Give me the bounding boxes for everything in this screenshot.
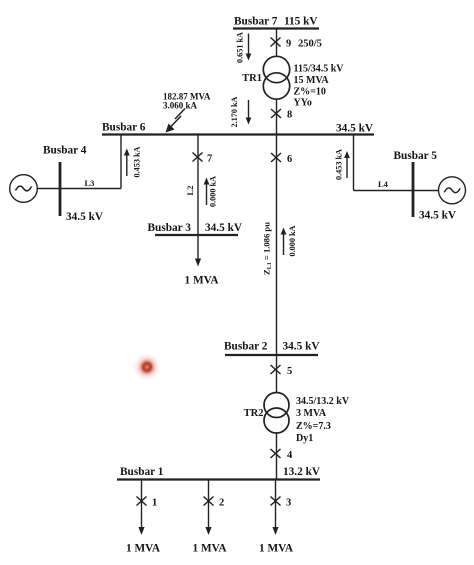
svg-text:13.2 kV: 13.2 kV [283,466,321,478]
feeder 3 wire [272,480,278,536]
busbar 7 label [234,16,318,28]
wire TR1 to busbar 6 [276,99,278,135]
svg-text:34.5 kV: 34.5 kV [66,211,104,223]
busbar 5 voltage label [419,210,457,222]
svg-text:1 MVA: 1 MVA [259,543,294,555]
load 3 label [259,543,294,555]
wire line L4 [354,190,439,192]
svg-text:1 MVA: 1 MVA [126,543,161,555]
svg-text:34.5 kV: 34.5 kV [336,123,374,135]
load 1 label [126,543,161,555]
svg-text:3 MVA: 3 MVA [296,408,327,419]
busbar 5 label [394,150,438,162]
svg-text:YYo: YYo [294,98,312,109]
transformer TR2 [264,393,289,434]
busbar 1 [117,478,320,480]
svg-text:TR2: TR2 [244,408,264,419]
label 2.170 kA [230,96,239,127]
wire busbar7 to TR1 [276,29,278,57]
svg-text:Dy1: Dy1 [296,433,313,444]
busbar 3 voltage label [205,222,243,234]
fault label 182.87 MVA 3.060 kA [163,92,211,111]
current arrow 0.651 kA [246,34,252,61]
svg-text:Z%=7.3: Z%=7.3 [296,421,331,432]
breaker 2 label [219,498,224,509]
svg-text:0.453 kA: 0.453 kA [133,146,142,177]
busbar 6 label [102,122,146,134]
breaker 5 label [287,366,292,377]
line L3 label [85,178,95,188]
wire L3 riser to busbar 6 [120,135,122,189]
busbar 4 [59,162,62,216]
label 0.651 kA [236,32,245,63]
svg-text:L4: L4 [378,179,389,189]
svg-text:0.651 kA: 0.651 kA [236,32,245,63]
busbar 2 voltage label [283,341,321,353]
load label 1 MVA [185,275,220,287]
load 2 label [193,543,228,555]
line L4 label [378,179,389,189]
svg-text:2: 2 [219,498,224,509]
fault lightning arrow [166,109,186,133]
feeder 1 wire [138,480,144,536]
svg-text:Busbar 2: Busbar 2 [224,341,268,353]
generator G5 [439,177,466,204]
wire busbar 6 to busbar 2 [276,135,278,356]
transformer TR1 [263,56,289,99]
busbar 1 voltage label [283,466,321,478]
breaker 8 [271,109,281,118]
breaker 7 label [207,154,212,165]
breaker 8 label [287,110,292,121]
busbar 5 [412,162,415,217]
svg-text:Busbar 4: Busbar 4 [43,145,87,157]
generator G4 [10,175,38,203]
current arrow 0.453 kA right [344,151,350,178]
wire G4 to line L3 [37,188,121,190]
svg-text:7: 7 [207,154,212,165]
svg-text:250/5: 250/5 [298,39,322,50]
label 0.000 kA upper [209,176,218,207]
breaker 9 label 250/5 [286,39,322,50]
current arrow 0.453 kA left [124,149,130,177]
svg-text:1: 1 [152,498,157,509]
wire busbar 6 riser right [353,135,355,191]
current arrow 2.170 kA [246,100,252,125]
svg-text:Busbar 7: Busbar 7 [234,16,278,28]
busbar 1 label [120,466,164,478]
svg-text:1 MVA: 1 MVA [185,275,220,287]
svg-text:TR1: TR1 [242,73,262,84]
TR2 label [244,408,264,419]
svg-text:Busbar 1: Busbar 1 [120,466,164,478]
busbar 3 label [148,222,192,234]
busbar 2 [225,354,318,356]
svg-text:ZL1 = 1.086 pu: ZL1 = 1.086 pu [262,222,274,275]
breaker 4 label [287,450,293,461]
svg-text:34.5 kV: 34.5 kV [283,341,321,353]
line impedance label ZL1 [262,222,274,275]
svg-text:8: 8 [287,110,292,121]
svg-text:Busbar 6: Busbar 6 [102,122,146,134]
svg-text:Z%=10: Z%=10 [294,87,326,98]
breaker 1 [137,497,147,506]
svg-text:34.5 kV: 34.5 kV [419,210,457,222]
feeder 2 wire [205,480,211,536]
svg-text:115 kV: 115 kV [284,16,318,28]
breaker 6 [271,153,281,162]
TR1 ratings [294,64,345,109]
label 0.000 kA line L1 [288,225,297,256]
breaker 2 [204,497,214,506]
svg-text:0.000 kA: 0.000 kA [209,176,218,207]
breaker 6 label [287,154,292,165]
svg-text:Busbar 5: Busbar 5 [394,150,438,162]
svg-text:3.060 kA: 3.060 kA [163,101,198,111]
current arrow 0.000 kA line L1 [281,228,287,256]
label 0.453 kA left [133,146,142,177]
TR2 ratings [296,396,350,444]
svg-text:L3: L3 [85,178,95,188]
svg-text:L2: L2 [185,186,195,196]
busbar 4 label [43,145,87,157]
svg-text:9: 9 [286,39,291,50]
current arrow 0.000 kA upper [204,178,210,206]
busbar 6 voltage label [336,123,374,135]
busbar 2 label [224,341,268,353]
svg-text:34.5/13.2 kV: 34.5/13.2 kV [296,396,350,407]
svg-text:Busbar 3: Busbar 3 [148,222,192,234]
breaker 5 [271,365,281,374]
busbar 7 [233,27,319,29]
wire TR2 to busbar 1 [276,433,278,480]
breaker 7 [193,153,203,162]
svg-text:0.000 kA: 0.000 kA [288,225,297,256]
breaker 9 [271,38,281,47]
svg-text:5: 5 [287,366,292,377]
breaker 1 label [152,498,157,509]
busbar 4 voltage label [66,211,104,223]
TR1 label [242,73,262,84]
svg-text:115/34.5 kV: 115/34.5 kV [294,64,345,75]
svg-text:15 MVA: 15 MVA [294,75,330,86]
svg-text:34.5 kV: 34.5 kV [205,222,243,234]
svg-text:3: 3 [286,498,291,509]
wire busbar 2 to TR2 [276,355,278,393]
breaker 3 label [286,498,291,509]
busbar 3 [155,234,238,236]
svg-text:2.170 kA: 2.170 kA [230,96,239,127]
svg-text:4: 4 [287,450,293,461]
breaker 4 [271,449,281,458]
red cursor glow dot [134,354,160,380]
load arrow busbar 3 [195,235,201,267]
line L2 label [185,186,195,196]
wire busbar 6 to busbar 3 [197,135,199,236]
breaker 3 [271,497,281,506]
svg-text:0.453 kA: 0.453 kA [335,149,344,180]
svg-text:6: 6 [287,154,292,165]
busbar 6 [102,133,374,135]
label 0.453 kA right [335,149,344,180]
svg-text:1 MVA: 1 MVA [193,543,228,555]
